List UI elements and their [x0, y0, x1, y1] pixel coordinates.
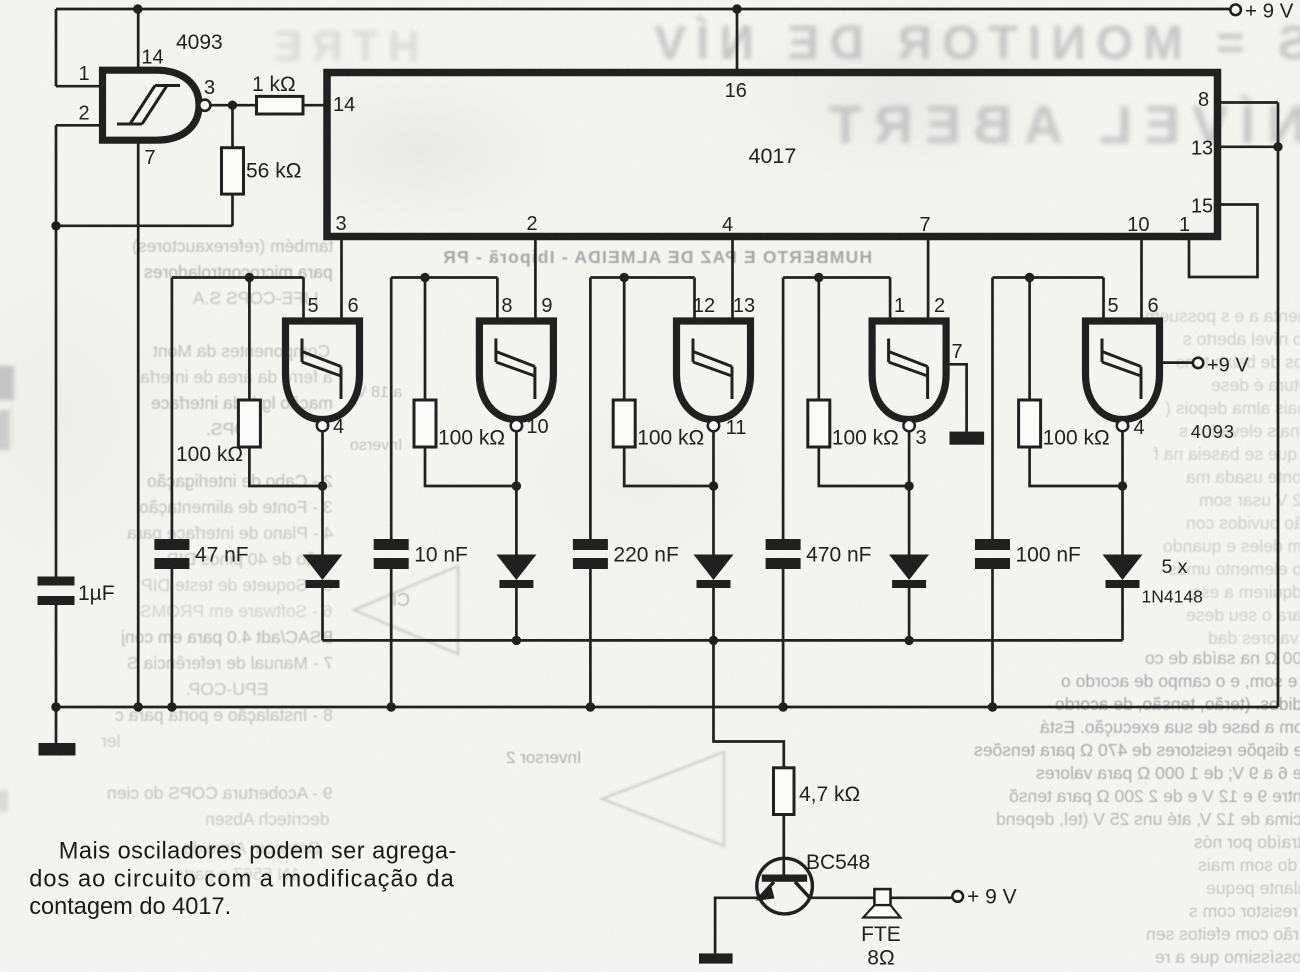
svg-text:dos ao circuito com a modifica: dos ao circuito com a modificação da — [29, 866, 454, 892]
svg-text:13: 13 — [733, 295, 755, 317]
svg-text:4: 4 — [722, 214, 733, 236]
svg-text:3: 3 — [204, 77, 215, 99]
svg-text:5: 5 — [1107, 295, 1118, 317]
svg-text:1N4148: 1N4148 — [1142, 587, 1203, 607]
svg-text:11: 11 — [726, 417, 747, 439]
svg-text:15: 15 — [1191, 195, 1213, 217]
svg-text:5: 5 — [307, 295, 318, 317]
svg-text:8: 8 — [1198, 89, 1209, 111]
svg-text:contagem do 4017.: contagem do 4017. — [29, 894, 231, 920]
svg-text:4017: 4017 — [749, 144, 797, 168]
svg-text:7: 7 — [919, 214, 930, 236]
svg-text:2: 2 — [526, 213, 537, 235]
svg-text:4093: 4093 — [176, 31, 223, 54]
svg-text:100 kΩ: 100 kΩ — [176, 443, 243, 466]
svg-text:56 kΩ: 56 kΩ — [246, 160, 301, 183]
svg-text:100 kΩ: 100 kΩ — [1043, 427, 1110, 450]
svg-text:FTE: FTE — [861, 923, 901, 946]
svg-text:100 kΩ: 100 kΩ — [637, 427, 704, 450]
svg-text:100 kΩ: 100 kΩ — [438, 427, 505, 450]
svg-text:8: 8 — [501, 295, 512, 317]
svg-text:3: 3 — [335, 213, 346, 235]
svg-text:10 nF: 10 nF — [414, 544, 468, 567]
svg-text:5 x: 5 x — [1162, 556, 1188, 578]
svg-text:+9 V: +9 V — [1207, 355, 1249, 377]
svg-text:+ 9 V: + 9 V — [1245, 0, 1294, 23]
svg-text:8Ω: 8Ω — [867, 947, 894, 970]
svg-text:1µF: 1µF — [78, 582, 115, 605]
svg-text:2: 2 — [934, 295, 945, 317]
svg-text:100 kΩ: 100 kΩ — [832, 427, 899, 450]
svg-text:2: 2 — [78, 103, 89, 125]
svg-text:220 nF: 220 nF — [613, 544, 678, 567]
svg-text:4: 4 — [1133, 417, 1144, 439]
svg-text:470 nF: 470 nF — [806, 544, 871, 567]
svg-text:13: 13 — [1191, 138, 1213, 160]
svg-text:7: 7 — [144, 147, 155, 169]
svg-text:10: 10 — [1127, 214, 1149, 236]
svg-text:4093: 4093 — [1191, 422, 1235, 442]
svg-text:7: 7 — [951, 341, 962, 363]
svg-text:6: 6 — [347, 295, 358, 317]
svg-text:9: 9 — [541, 295, 552, 317]
svg-text:10: 10 — [526, 416, 548, 438]
svg-text:+ 9 V: + 9 V — [967, 886, 1017, 909]
svg-text:47 nF: 47 nF — [195, 544, 249, 567]
svg-text:6: 6 — [1147, 295, 1158, 317]
svg-text:1: 1 — [78, 63, 89, 85]
svg-text:12: 12 — [693, 295, 715, 317]
svg-text:4,7 kΩ: 4,7 kΩ — [799, 783, 860, 806]
svg-text:100 nF: 100 nF — [1016, 544, 1081, 567]
svg-text:1: 1 — [894, 295, 905, 317]
svg-text:3: 3 — [915, 427, 926, 449]
svg-text:14: 14 — [333, 94, 355, 116]
svg-text:Mais osciladores podem ser agr: Mais osciladores podem ser agrega- — [59, 839, 457, 865]
svg-text:BC548: BC548 — [806, 851, 870, 874]
svg-text:1 kΩ: 1 kΩ — [252, 73, 296, 96]
svg-text:14: 14 — [141, 47, 163, 69]
svg-text:1: 1 — [1179, 214, 1190, 236]
svg-text:4: 4 — [333, 416, 344, 438]
svg-text:16: 16 — [725, 80, 747, 102]
